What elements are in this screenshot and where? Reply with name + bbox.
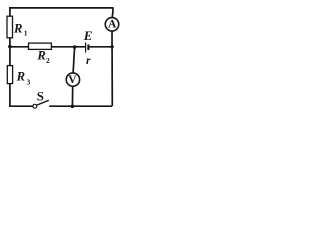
svg-text:S: S <box>37 89 44 103</box>
svg-text:2: 2 <box>46 56 50 65</box>
node voltmeter bottom junction <box>71 105 75 109</box>
wire top <box>9 7 113 9</box>
node voltmeter top junction <box>73 45 77 49</box>
svg-text:r: r <box>86 55 91 67</box>
wire bottom right <box>72 105 112 107</box>
wire voltmeter lower <box>71 86 73 106</box>
wire middle right <box>51 46 85 48</box>
svg-text:V: V <box>68 74 77 86</box>
resistor R3 <box>7 66 30 87</box>
wire left middle <box>9 38 11 66</box>
wire left upper <box>9 7 11 16</box>
switch S <box>33 89 49 108</box>
wire right lower <box>111 31 113 106</box>
wire left lower <box>9 84 11 107</box>
svg-text:1: 1 <box>24 28 28 37</box>
svg-text:R: R <box>36 49 45 63</box>
wire battery to right <box>89 46 112 48</box>
wire middle left <box>10 46 29 48</box>
svg-text:3: 3 <box>27 77 31 86</box>
voltmeter V <box>66 73 79 86</box>
svg-text:R: R <box>13 22 22 36</box>
wire voltmeter upper <box>73 47 75 73</box>
wire right upper <box>111 7 114 17</box>
wire bottom middle <box>49 105 72 107</box>
resistor R2 <box>29 43 52 65</box>
battery E r <box>83 28 93 67</box>
ammeter A <box>105 18 119 32</box>
svg-text:A: A <box>108 19 117 31</box>
svg-text:R: R <box>16 70 25 84</box>
node left junction <box>8 45 12 49</box>
svg-text:E: E <box>83 28 93 43</box>
wire bottom left <box>9 105 33 107</box>
node battery right junction <box>110 45 113 48</box>
resistor R1 <box>7 16 28 38</box>
